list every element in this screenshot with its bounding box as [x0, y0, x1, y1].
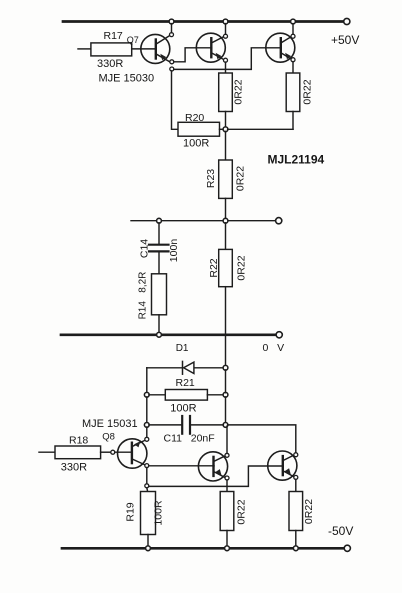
svg-text:R20: R20	[185, 112, 204, 124]
transistor Q7	[141, 34, 170, 63]
wire junction down to R23	[225, 131, 227, 160]
resistor R19	[141, 492, 156, 535]
wire down to R19	[146, 488, 149, 492]
svg-text:D1: D1	[176, 343, 189, 354]
svg-text:R14 8,2R: R14 8,2R	[137, 272, 148, 320]
svg-text:0R22: 0R22	[303, 499, 315, 524]
svg-text:0R22: 0R22	[234, 166, 246, 191]
svg-text:MJE 15030: MJE 15030	[99, 73, 155, 85]
svg-text:100R: 100R	[183, 138, 209, 150]
wire Q7 collector to rail	[171, 24, 173, 33]
mid rail end terminal	[276, 218, 282, 224]
svg-text:+50V: +50V	[331, 33, 359, 47]
svg-text:R22: R22	[208, 258, 220, 277]
transistor Q8 (MJE15031)	[118, 439, 147, 468]
wire bias columns between R21 and C11	[146, 397, 148, 423]
pin: output1 collector terminal	[224, 34, 228, 38]
resistor 0R22 (emitter output1)	[219, 73, 233, 112]
pin: Q8 emitter terminal	[145, 437, 149, 441]
resistor R23	[219, 160, 233, 198]
wire Q8 collector column down	[146, 468, 148, 484]
svg-text:R17: R17	[104, 30, 123, 42]
+50V rail end terminal	[344, 18, 350, 24]
resistor R18	[39, 451, 55, 453]
svg-text:MJE 15031: MJE 15031	[82, 418, 138, 430]
pin: output2 collector terminal	[291, 34, 295, 38]
wire C11 left down to Q8 emitter	[146, 427, 148, 437]
node: base feed lower junction	[145, 484, 149, 488]
pin: Q8 base terminal	[111, 450, 115, 454]
resistor 0R22 (emitter output3)	[220, 492, 234, 531]
node: R21 left	[144, 392, 149, 397]
node: mid rail / R23-R22	[223, 218, 228, 223]
capacitor C14	[158, 223, 160, 244]
wire bias left column	[146, 368, 148, 393]
svg-text:0 V: 0 V	[263, 342, 285, 354]
svg-text:100R: 100R	[153, 500, 165, 526]
0V rail	[61, 333, 276, 336]
wire output3 emitter down to 0R22	[226, 480, 228, 492]
node: R21 right	[223, 392, 228, 397]
svg-text:MJL21194: MJL21194	[268, 153, 325, 167]
pin: output4 emitter terminal	[294, 475, 298, 479]
pin: Q7 emitter lower terminal	[170, 67, 174, 71]
wire output3 collector up to C11 node	[226, 426, 228, 453]
node: mid rail / C14	[157, 218, 162, 223]
node: rail junction output1 collector	[223, 19, 228, 24]
svg-text:0R22: 0R22	[235, 255, 247, 280]
pin: Q7 collector terminal	[170, 33, 174, 37]
resistor R17	[78, 48, 91, 50]
resistor R20	[178, 122, 220, 136]
svg-text:R19: R19	[125, 502, 137, 521]
transistor output3 (lower middle)	[198, 452, 227, 481]
node: rail junction output2 collector	[291, 19, 296, 24]
svg-text:0R22: 0R22	[232, 79, 244, 104]
pin: output3 collector terminal	[225, 453, 229, 457]
capacitor C11	[149, 424, 181, 426]
svg-text:100n: 100n	[168, 239, 180, 263]
wire junction to output2 emitter resistor	[228, 128, 293, 130]
node: C11 left	[144, 423, 149, 428]
resistor 0R22 (emitter output4)	[289, 492, 303, 531]
svg-text:330R: 330R	[61, 462, 87, 474]
transistor output2 (MJL21194)	[266, 33, 295, 62]
transistor output1 (MJL21194)	[196, 33, 225, 62]
-50V rail end terminal	[344, 545, 350, 551]
node: rail / 0R22 output3	[225, 546, 230, 551]
pin: output2 emitter terminal	[291, 58, 295, 62]
resistor 0R22 (emitter output2)	[286, 73, 300, 112]
node: rail / R19	[146, 546, 151, 551]
0V rail end terminal	[276, 332, 282, 338]
resistor R14	[152, 274, 167, 315]
wire Q7 emitter to output1 base	[174, 48, 212, 62]
node: D1 anode junction	[223, 365, 228, 370]
node: C11 right	[223, 423, 228, 428]
node: rail / 0R22 output4	[293, 546, 298, 551]
diode D1	[147, 367, 182, 369]
resistor R22	[225, 223, 227, 250]
resistor R21	[149, 394, 165, 396]
node: 0V rail / R14	[157, 332, 162, 337]
pin: Q8 collector terminal	[145, 464, 149, 468]
node: R20/emitter junction	[223, 127, 228, 132]
node: rail junction Q7 collector	[169, 19, 174, 24]
svg-text:R18: R18	[69, 435, 88, 447]
-50V rail	[62, 547, 345, 550]
+50V rail	[63, 20, 344, 23]
svg-text:100R: 100R	[170, 403, 196, 415]
svg-text:Q8: Q8	[102, 432, 115, 443]
svg-text:0R22: 0R22	[301, 79, 313, 104]
svg-text:-50V: -50V	[328, 524, 353, 538]
pin: output3 emitter terminal	[225, 476, 229, 480]
pin: Q7 emitter terminal	[170, 60, 174, 64]
svg-text:C11 20nF: C11 20nF	[164, 433, 215, 445]
wire Q7 emitter column down to R20	[172, 71, 179, 129]
wire Q7 emitter to output2 base	[174, 48, 281, 70]
svg-text:330R: 330R	[97, 58, 123, 70]
wire base feed to output4 base	[149, 466, 283, 486]
svg-text:C14: C14	[138, 239, 150, 258]
wire R22 down across 0V rail to D1 node	[225, 287, 227, 366]
pin: output4 collector terminal	[294, 453, 298, 457]
pin: output1 emitter terminal	[224, 58, 228, 62]
svg-text:R21: R21	[176, 377, 195, 389]
transistor output4 (lower right)	[268, 451, 297, 480]
wire Q8 collector to output3 base	[149, 465, 214, 467]
mid rail	[131, 220, 276, 222]
wire output4 collector up and to C11 node	[228, 425, 296, 453]
svg-text:0R22: 0R22	[236, 499, 248, 524]
svg-text:Q7: Q7	[127, 35, 139, 45]
wire output1 emitter to R-emitter	[225, 62, 227, 73]
svg-text:R23: R23	[205, 169, 217, 188]
